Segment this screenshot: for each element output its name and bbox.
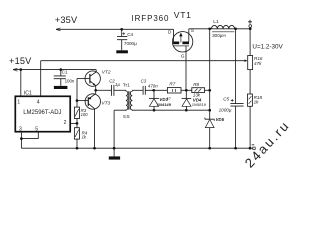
svg-text:1N4149: 1N4149 [157,102,172,107]
svg-text:+15V: +15V [9,56,32,66]
svg-text:100n: 100n [65,79,75,84]
svg-text:47k: 47k [254,61,262,66]
svg-text:3: 3 [19,127,22,133]
svg-text:100: 100 [81,112,89,117]
svg-text:L1: L1 [213,19,219,25]
svg-text:C3: C3 [141,79,147,84]
svg-text:VT2: VT2 [102,69,111,75]
svg-text:1µ: 1µ [115,82,120,87]
svg-text:470n: 470n [148,83,158,88]
svg-text:VD5: VD5 [216,117,225,122]
svg-text:13k: 13k [193,92,201,97]
svg-text:R8: R8 [193,82,199,87]
svg-text:IRFP360: IRFP360 [132,14,170,23]
svg-text:4: 4 [37,100,40,106]
svg-text:R7: R7 [169,81,175,86]
svg-text:5:5: 5:5 [123,114,130,119]
svg-text:10: 10 [167,96,171,100]
svg-text:LM2596T-ADJ: LM2596T-ADJ [23,110,61,116]
svg-text:+35V: +35V [55,15,78,25]
svg-text:C1: C1 [62,70,68,75]
svg-text:Tr1: Tr1 [123,82,130,88]
svg-text:VT3: VT3 [101,101,110,107]
svg-text:300µH: 300µH [212,33,226,38]
svg-text:7000µ: 7000µ [124,41,137,46]
svg-text:IC1: IC1 [24,91,32,97]
svg-text:1k: 1k [254,100,260,105]
svg-text:1: 1 [17,100,20,106]
svg-text:C4: C4 [127,32,133,37]
svg-text:2: 2 [64,120,67,126]
svg-text:1000µ: 1000µ [219,108,232,113]
svg-text:5: 5 [35,127,38,133]
svg-text:G: G [181,53,185,58]
svg-text:U=1.2-30V: U=1.2-30V [252,44,283,51]
svg-text:VT1: VT1 [174,10,192,20]
svg-text:1N5819: 1N5819 [192,102,207,107]
svg-text:C5: C5 [223,96,229,101]
